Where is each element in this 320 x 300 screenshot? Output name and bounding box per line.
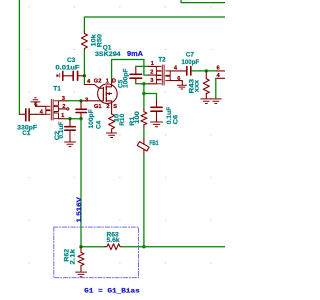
svg-text:9mA: 9mA xyxy=(127,49,144,58)
resistor R62 xyxy=(80,247,82,253)
svg-text:2.1k: 2.1k xyxy=(70,248,77,264)
pin S lead of Q1 xyxy=(111,103,113,114)
node: junction C7/R43 xyxy=(205,69,208,72)
svg-text:R50: R50 xyxy=(97,34,104,48)
node: junction R62 xyxy=(79,245,82,248)
pin G2 lead of Q1 xyxy=(84,85,103,89)
transformer T1 xyxy=(35,105,45,107)
svg-text:100: 100 xyxy=(134,111,141,124)
svg-text:C7: C7 xyxy=(186,51,195,58)
pin 4 of T2 to C7 xyxy=(170,70,186,72)
node: junction C5/T2pin3 xyxy=(142,82,145,85)
wire: to C6 xyxy=(144,94,157,100)
svg-text:T1: T1 xyxy=(53,85,61,92)
ground under R10 xyxy=(106,133,116,138)
bias box dashed xyxy=(54,227,139,278)
resistor R43 xyxy=(205,71,207,79)
svg-text:T2: T2 xyxy=(158,56,166,63)
svg-text:G1: G1 xyxy=(94,104,102,110)
node: junction C2 xyxy=(68,117,71,120)
node: junction C3/R50 xyxy=(83,74,86,77)
ground under C2 xyxy=(65,142,76,147)
svg-text:3: 3 xyxy=(62,96,65,102)
svg-text:C1: C1 xyxy=(22,130,31,137)
svg-text:6: 6 xyxy=(217,66,220,72)
svg-text:3: 3 xyxy=(150,78,153,84)
ground flipped at T1 pin6 xyxy=(34,102,36,106)
wire: C7 to output pin xyxy=(192,70,217,72)
svg-text:3: 3 xyxy=(85,97,88,103)
wire: C5 top to T2 pin1 xyxy=(136,65,149,67)
ground at T2 pin6 xyxy=(177,85,186,89)
svg-text:C6: C6 xyxy=(172,114,179,124)
resistor R50 xyxy=(83,32,85,34)
wire: R50 bottom to G2 junction xyxy=(83,51,85,85)
svg-text:0.1uF: 0.1uF xyxy=(58,122,65,139)
resistor R1 xyxy=(143,109,145,112)
wire: C4 bottom long wire down to bias xyxy=(80,119,82,247)
pin 4 stub right edge to ground xyxy=(216,77,225,79)
wire: top-right corner stub xyxy=(181,0,225,3)
wire: junction down to R1 and C6 branch xyxy=(143,84,145,109)
node: junction bias/FB1 xyxy=(142,245,145,248)
svg-text:100pF: 100pF xyxy=(182,59,200,66)
transformer T2 xyxy=(149,66,157,83)
svg-text:FB1: FB1 xyxy=(149,140,159,147)
svg-text:G2: G2 xyxy=(94,78,102,84)
resistor R10 xyxy=(109,114,115,129)
node: junction C4 bottom xyxy=(79,117,82,120)
resistor R63 xyxy=(105,244,122,250)
wire: bias rail right xyxy=(122,246,225,248)
svg-text:3SK294: 3SK294 xyxy=(95,51,121,58)
wire: C5 bottom to T2 pin3 xyxy=(136,83,149,85)
svg-text:1: 1 xyxy=(151,61,154,67)
svg-text:1: 1 xyxy=(61,113,64,119)
ground under R43 xyxy=(201,99,212,104)
svg-text:0.01uF: 0.01uF xyxy=(55,64,79,71)
svg-text:2: 2 xyxy=(62,104,65,110)
node: junction C4 top xyxy=(79,99,82,102)
svg-text:C4: C4 xyxy=(95,120,102,129)
svg-text:xxx: xxx xyxy=(194,79,201,92)
wire: T1 pin1 xyxy=(66,118,81,120)
capacitor C1 xyxy=(19,113,25,115)
svg-text:1: 1 xyxy=(106,78,109,84)
svg-text:100pF: 100pF xyxy=(123,68,130,88)
capacitor C6 xyxy=(156,99,158,107)
ground under pin 4 xyxy=(210,99,221,104)
ferrite bead FB1 xyxy=(143,139,145,144)
svg-text:S: S xyxy=(113,104,117,110)
svg-text:2: 2 xyxy=(150,70,153,76)
svg-text:G1 = G1_Bias: G1 = G1_Bias xyxy=(84,288,140,295)
pin 1 of T1 xyxy=(59,118,67,120)
grid dots xyxy=(28,6,211,263)
capacitor C2 xyxy=(69,119,71,127)
svg-text:1.516V: 1.516V xyxy=(76,196,83,222)
ground under R62 xyxy=(76,272,87,277)
svg-text:6: 6 xyxy=(34,102,37,108)
pin 6 of T2 to ground xyxy=(170,81,182,85)
svg-text:100pF: 100pF xyxy=(88,109,95,128)
wire: R1 to FB1 xyxy=(143,128,145,139)
ground under C6 xyxy=(151,122,163,127)
transistor Q2 dual-gate MOSFET Q1 xyxy=(98,84,118,104)
pin 6 output stub right edge xyxy=(216,70,225,72)
svg-text:C3: C3 xyxy=(67,57,76,64)
svg-text:D: D xyxy=(112,78,116,84)
svg-text:6: 6 xyxy=(177,76,180,82)
pin 2 of T1 open xyxy=(59,108,67,110)
wire: T1 pin3 to Q1 G1 xyxy=(68,100,83,102)
capacitor C7 xyxy=(186,67,188,75)
pin G1 lead of Q1 xyxy=(82,100,103,102)
svg-text:R10: R10 xyxy=(119,113,126,126)
wire: FB1 down to bias rail xyxy=(143,156,145,247)
capacitor C3 xyxy=(56,75,58,77)
node: junction C6 branch xyxy=(142,92,145,95)
svg-text:5.6k: 5.6k xyxy=(107,237,121,244)
svg-text:2: 2 xyxy=(106,104,109,110)
capacitor C4 xyxy=(80,101,82,109)
wire: left input rail vertical xyxy=(18,0,20,114)
wire: top supply rail xyxy=(84,17,225,32)
pin D lead of Q1 xyxy=(111,79,113,85)
wire: drain to T2 pin2 xyxy=(112,60,149,80)
pin 3 of T1 xyxy=(59,100,68,102)
capacitor C5 xyxy=(130,73,142,75)
wire: bias rail xyxy=(81,246,105,248)
